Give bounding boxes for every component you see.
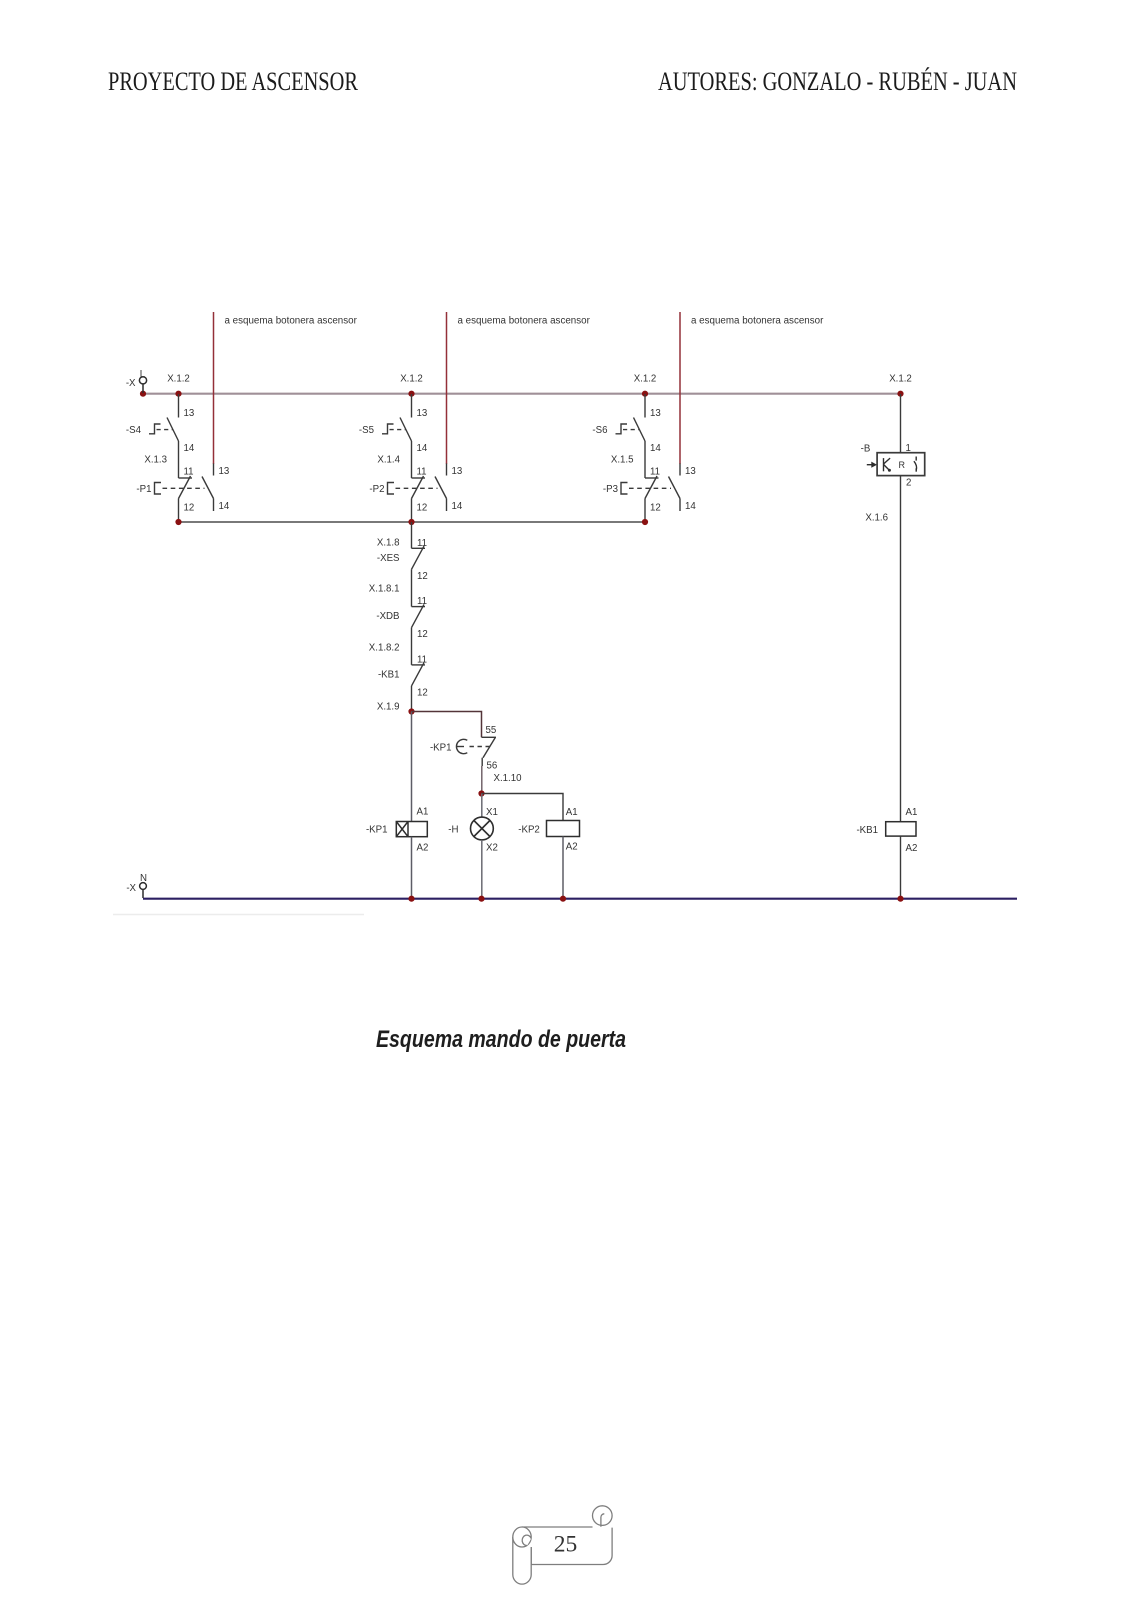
svg-text:11: 11	[417, 654, 427, 665]
key switch -B arrow	[867, 462, 877, 468]
faint underline artifact	[113, 914, 364, 916]
pushbutton -S5 NO contact	[382, 418, 412, 442]
svg-text:a esquema botonera ascensor: a esquema botonera ascensor	[458, 316, 591, 327]
node rail N (KP2 branch)	[560, 896, 566, 902]
svg-text:-X: -X	[126, 883, 136, 894]
coil -KP1 (with mechanical latch square)	[396, 822, 427, 837]
wire into contact -KB1 (terminal X.1.8.2)	[411, 628, 413, 665]
svg-text:X.1.10: X.1.10	[494, 773, 523, 784]
svg-text:R: R	[899, 460, 906, 470]
svg-text:A1: A1	[906, 807, 918, 818]
terminal -X L	[139, 377, 146, 393]
node X.1.10	[478, 790, 484, 796]
svg-text:X.1.5: X.1.5	[611, 455, 634, 466]
svg-text:11: 11	[650, 467, 660, 478]
svg-text:-S5: -S5	[359, 425, 374, 436]
svg-text:55: 55	[486, 725, 497, 736]
svg-text:13: 13	[650, 408, 661, 419]
svg-text:A1: A1	[417, 807, 429, 818]
node X.1.2 (S4 branch)	[167, 374, 190, 397]
svg-text:14: 14	[650, 443, 661, 454]
wire to botonera (red riser S5 branch)	[446, 312, 448, 464]
node rail N (lamp branch)	[478, 896, 484, 902]
svg-text:-S6: -S6	[592, 425, 607, 436]
svg-text:25: 25	[554, 1532, 578, 1558]
svg-text:-KP2: -KP2	[518, 825, 540, 836]
svg-text:a esquema botonera ascensor: a esquema botonera ascensor	[691, 316, 824, 327]
svg-text:X.1.3: X.1.3	[144, 455, 167, 466]
pushbutton -P1 NC contact pole 11-12	[155, 476, 205, 499]
wire -KB1 12 to node X.1.9	[411, 686, 413, 712]
svg-text:56: 56	[487, 761, 498, 772]
svg-text:14: 14	[417, 443, 428, 454]
svg-text:-H: -H	[448, 825, 458, 836]
svg-text:X.1.2: X.1.2	[634, 374, 657, 385]
page number scroll banner	[513, 1506, 612, 1584]
node X.1.9	[408, 708, 414, 714]
terminal -X N	[140, 883, 147, 898]
wire to botonera (red riser S4 branch)	[213, 312, 215, 464]
svg-text:-KP1: -KP1	[430, 743, 452, 754]
svg-text:-KP1: -KP1	[366, 825, 388, 836]
NC contact -XES	[412, 546, 426, 569]
header right	[658, 67, 1017, 97]
svg-text:-KB1: -KB1	[378, 669, 400, 680]
svg-text:12: 12	[417, 629, 428, 640]
NC contact -KB1	[412, 663, 426, 686]
wire node X.1.10 to lamp -H X1	[481, 794, 483, 818]
wire node X.1.9 to -KP1 coil A1	[411, 712, 413, 822]
svg-text:X.1.6: X.1.6	[865, 513, 888, 524]
svg-text:-P3: -P3	[603, 484, 618, 495]
wire -KP1 coil A2 to rail N	[411, 837, 413, 899]
svg-text:X.1.4: X.1.4	[377, 455, 400, 466]
wire rail to -S4 pin 13	[178, 394, 180, 418]
svg-text:13: 13	[417, 408, 428, 419]
header left	[108, 67, 358, 97]
NC contact -XDB	[412, 604, 426, 627]
svg-text:-P1: -P1	[136, 484, 151, 495]
node rail N (KP1 branch)	[408, 896, 414, 902]
wire rail to -S6 pin 13	[644, 394, 646, 418]
wire -P1 12 to lower interconnect	[178, 499, 180, 523]
coil -KP2	[547, 821, 580, 837]
svg-text:14: 14	[452, 501, 463, 512]
svg-text:X.1.2: X.1.2	[167, 374, 190, 385]
pushbutton -P1 NO contact pole 13-14	[202, 464, 214, 512]
svg-text:14: 14	[184, 443, 195, 454]
svg-text:13: 13	[452, 466, 463, 477]
wire into contact -XDB (terminal X.1.8.1)	[411, 569, 413, 606]
svg-text:A2: A2	[417, 843, 429, 854]
wire -S4 14 to -P1 11 (terminal X.1.3)	[178, 441, 180, 478]
svg-text:13: 13	[685, 466, 696, 477]
wire lamp -H X2 to rail N	[481, 840, 483, 899]
pushbutton -P2 NO contact pole 13-14	[435, 464, 447, 512]
svg-text:N: N	[140, 873, 147, 884]
svg-text:12: 12	[184, 503, 195, 514]
wire rail to -B pin 1	[900, 394, 902, 453]
wire -KB1 coil A2 to rail N	[900, 836, 902, 898]
node lower interconnect (S4 branch)	[175, 519, 181, 525]
node rail N (KB1 branch)	[897, 896, 903, 902]
pushbutton -P3 NO contact pole 13-14	[669, 464, 681, 512]
node lower interconnect (S5 branch)	[408, 519, 414, 525]
rail N	[143, 898, 1017, 900]
svg-text:X.1.8.1: X.1.8.1	[369, 584, 400, 595]
svg-text:14: 14	[685, 501, 696, 512]
wire -P2 12 to lower interconnect	[411, 499, 413, 523]
svg-text:11: 11	[417, 596, 427, 607]
svg-text:X.1.8.2: X.1.8.2	[369, 643, 400, 654]
svg-text:X.1.2: X.1.2	[400, 374, 423, 385]
wire node X.1.10 to -KP2 coil A1 (jumper)	[482, 794, 564, 821]
svg-text:-XES: -XES	[377, 553, 400, 564]
svg-text:X.1.9: X.1.9	[377, 702, 400, 713]
node X.1.2 (S5 branch)	[400, 374, 423, 397]
wire -S5 14 to -P2 11 (terminal X.1.4)	[411, 441, 413, 478]
wire: lower interconnect	[179, 521, 646, 523]
svg-text:X.1.8: X.1.8	[377, 538, 400, 549]
svg-text:11: 11	[417, 467, 427, 478]
svg-text:11: 11	[417, 538, 427, 549]
svg-text:-B: -B	[861, 444, 871, 455]
svg-text:X.1.2: X.1.2	[889, 374, 912, 385]
wire into contact -XES (terminal X.1.8)	[411, 522, 413, 548]
svg-text:13: 13	[219, 466, 230, 477]
key switch -B box	[877, 453, 925, 476]
rail L	[143, 393, 901, 395]
lamp -H	[471, 817, 494, 840]
svg-text:L: L	[140, 369, 146, 380]
pushbutton -S4 NO contact	[149, 418, 179, 442]
svg-text:12: 12	[417, 503, 428, 514]
svg-text:2: 2	[906, 478, 911, 489]
wire rail to -S5 pin 13	[411, 394, 413, 418]
svg-text:12: 12	[417, 571, 428, 582]
pushbutton -P3 NC contact pole 11-12	[621, 476, 671, 499]
key switch -B inner contact glyph	[914, 457, 917, 472]
svg-text:X1: X1	[486, 807, 498, 818]
node X.1.2 (S6 branch)	[634, 374, 657, 397]
wire to botonera (red riser S6 branch)	[679, 312, 681, 464]
svg-text:-S4: -S4	[126, 425, 142, 436]
svg-text:A2: A2	[566, 842, 578, 853]
pushbutton -P2 NC contact pole 11-12	[388, 476, 438, 499]
svg-text:13: 13	[184, 408, 195, 419]
wire node X.1.9 to -KP1 contact 55 (jumper)	[412, 712, 482, 738]
wire -P3 12 to lower interconnect	[644, 499, 646, 523]
wire -S6 14 to -P3 11 (terminal X.1.5)	[644, 441, 646, 478]
svg-text:-X: -X	[126, 378, 136, 389]
svg-text:X2: X2	[486, 843, 498, 854]
pushbutton -S6 NO contact	[616, 418, 646, 442]
caption title	[376, 1026, 626, 1054]
node rail L start	[140, 391, 146, 397]
svg-text:A1: A1	[566, 807, 578, 818]
svg-text:-KB1: -KB1	[856, 825, 878, 836]
svg-text:A2: A2	[906, 843, 918, 854]
svg-text:11: 11	[184, 467, 194, 478]
node lower interconnect (S6 branch)	[642, 519, 648, 525]
svg-text:-XDB: -XDB	[376, 611, 399, 622]
svg-text:-P2: -P2	[369, 484, 384, 495]
svg-text:a esquema botonera ascensor: a esquema botonera ascensor	[225, 316, 358, 327]
svg-text:14: 14	[219, 501, 230, 512]
timed contact -KP1 55-56	[456, 737, 496, 766]
node X.1.2 (B branch)	[889, 374, 912, 397]
wire -KP1 56 to node X.1.10	[481, 766, 483, 794]
coil -KB1	[886, 822, 916, 836]
svg-text:12: 12	[417, 687, 428, 698]
wire -KP2 coil A2 to rail N	[562, 837, 564, 899]
key switch -B inner K glyph	[884, 458, 891, 472]
svg-text:12: 12	[650, 503, 661, 514]
wire -B pin 2 to -KB1 coil A1 (terminal X.1.6)	[900, 476, 902, 822]
